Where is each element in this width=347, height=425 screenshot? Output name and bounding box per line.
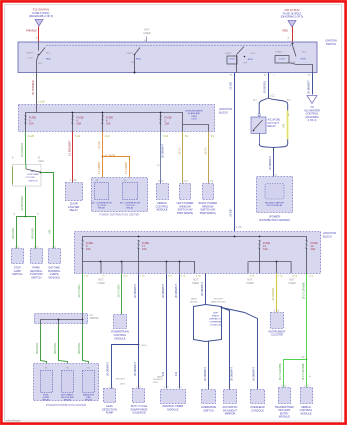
svg-text:A/C COMPRESSOR: A/C COMPRESSOR [91,201,111,204]
switch SW2 [134,48,140,56]
svg-text:20 PNK/BLK: 20 PNK/BLK [31,80,35,95]
wire loop to overdrive switch [208,342,210,390]
svg-text:LKS): LKS) [192,119,197,121]
svg-text:B: B [38,156,40,160]
svg-text:SWITCH: SWITCH [326,42,336,46]
svg-text:20A: 20A [77,121,82,125]
junction block JB1 [19,105,215,132]
svg-text:USED: USED [246,281,253,285]
svg-text:20 DB: 20 DB [229,82,233,89]
svg-text:RADIATOR: RADIATOR [83,393,95,396]
svg-text:20 LT GRN: 20 LT GRN [77,284,81,297]
svg-text:GLASS AND: GLASS AND [188,112,201,115]
svg-text:20 DB/WHT: 20 DB/WHT [203,367,207,381]
svg-text:20 OR/YEL: 20 OR/YEL [271,287,275,301]
PDC starter relay box [257,177,293,213]
svg-text:A/C COMPRESSOR: A/C COMPRESSOR [120,201,140,204]
wire fuse F13 to ignition switch [38,27,40,43]
svg-text:RELAY: RELAY [268,124,277,128]
svg-text:CONSOLE: CONSOLE [251,408,264,412]
svg-text:C110: C110 [38,159,45,163]
PCM relay block box [34,364,99,401]
svg-text:START →: START → [275,50,285,53]
svg-text:7 C6: 7 C6 [278,275,283,277]
svg-text:18 LT GRN/BK: 18 LT GRN/BK [301,363,305,380]
svg-text:CUT OFF: CUT OFF [25,177,35,179]
svg-text:(DIAGRAMS 2 OF 3): (DIAGRAMS 2 OF 3) [29,14,53,18]
wire ignition to JB1 [36,73,38,105]
svg-text:BRN/YEL: BRN/YEL [77,342,81,354]
PDC box (compressor relays) [92,178,148,212]
svg-text:20 DB/WHT: 20 DB/WHT [268,156,272,170]
svg-text:BRN/YEL: BRN/YEL [35,342,39,354]
JB2 fuse FB [138,241,139,249]
svg-text:(W/O): (W/O) [141,345,147,347]
JB2 lower bus left [82,249,84,262]
svg-text:5 C2: 5 C2 [164,387,169,389]
svg-text:8 L: 8 L [185,134,189,138]
svg-text:RELAY: RELAY [43,399,51,402]
svg-text:3 L6: 3 L6 [163,134,169,138]
svg-text:7 C2: 7 C2 [177,387,182,389]
svg-text:MOTOR RELAY: MOTOR RELAY [267,204,283,207]
svg-text:RELAY: RELAY [70,208,79,212]
svg-text:LOCK: LOCK [229,58,235,60]
svg-text:RUN: RUN [136,58,141,60]
wire relay to PDC starter relay [273,148,275,177]
svg-text:SOLENOID: SOLENOID [132,411,146,415]
svg-text:OFF: OFF [243,62,248,64]
svg-text:ACC: ACC [46,52,51,55]
svg-text:9 L: 9 L [211,134,215,138]
svg-text:18 LT GRN/BK: 18 LT GRN/BK [278,363,282,380]
svg-text:(EXCEPT →: (EXCEPT → [116,379,128,381]
svg-text:LOCK: LOCK [27,58,33,60]
svg-text:OVERHEAD: OVERHEAD [209,321,222,324]
JB1 fuse F4 [160,116,161,124]
svg-text:20 DB/WHT: 20 DB/WHT [161,144,165,158]
AC low pressure cutoff switch box [13,164,41,186]
JB2 fuse right drop [306,249,308,274]
svg-text:18 LT GRN/BK: 18 LT GRN/BK [302,282,306,299]
svg-text:4 C6: 4 C6 [181,275,186,277]
svg-text:5 C1: 5 C1 [158,179,164,183]
wire JB2 to keyless entry + overhead (light green) [306,274,308,360]
svg-text:MODULE: MODULE [156,208,167,212]
relay branch pin squares [258,114,260,116]
svg-text:10A: 10A [142,247,147,251]
svg-text:10A: 10A [263,247,268,251]
daytime running lamps module box [49,249,61,264]
wire JB2 overdrive feed (blue) [205,274,207,305]
wire fuse F30 to ignition switch [292,27,294,43]
right power window switch box [203,184,214,200]
svg-text:20 DG/WHT: 20 DG/WHT [20,143,24,158]
svg-text:1 C6: 1 C6 [196,275,201,277]
svg-text:START: START [26,52,34,55]
svg-text:20 DB/WHT: 20 DB/WHT [252,367,256,381]
svg-text:12 RED/WHT: 12 RED/WHT [68,140,72,156]
connector triangle [307,96,317,104]
alternate routing loop [194,305,206,342]
svg-text:20 BRN/YEL: 20 BRN/YEL [20,195,24,210]
A/C PCM cutout relay box [251,117,266,133]
svg-text:(EXCEPT: (EXCEPT [214,299,224,301]
svg-text:LOW PRES: LOW PRES [27,174,39,176]
svg-text:PUMP: PUMP [43,397,50,399]
svg-text:ONLY →: ONLY → [153,382,162,384]
wire ignition to connector triangle [312,73,314,95]
wire low pressure switch right tap [41,173,54,249]
svg-text:PUMP: PUMP [106,411,114,415]
ignition switch box [18,42,317,73]
svg-text:1 C2: 1 C2 [34,246,39,248]
wire low pressure switch down + split [25,187,27,217]
svg-text:14 OR/BK: 14 OR/BK [124,162,128,174]
svg-text:BASE MODEL): BASE MODEL) [211,300,226,303]
svg-text:14 OR/BK: 14 OR/BK [97,162,101,174]
wire branch to day night mirror [222,308,230,390]
switch SW3 [237,47,244,55]
svg-text:RED: RED [283,29,289,33]
JB2 top bus [83,237,307,241]
svg-text:FAN: FAN [86,396,91,399]
svg-text:START: START [126,52,134,55]
svg-text:8 C6: 8 C6 [293,275,298,277]
JB2 fuse FA [82,241,83,249]
svg-text:5 C6: 5 C6 [250,275,255,277]
svg-text:(DIAGRAM 2 OF 3): (DIAGRAM 2 OF 3) [281,15,304,19]
svg-text:10A: 10A [86,247,91,251]
svg-text:1 C2: 1 C2 [269,94,275,98]
fuse symbol F13 [35,20,43,27]
wires JB2 to central timer module (blue) [166,274,168,389]
JB1 bus [26,113,209,132]
wire JB1 to AC low pressure switch (green) [25,132,27,165]
JB2 sub bus right [259,249,261,262]
fusible link yellow [286,111,288,140]
svg-text:RELAY: RELAY [64,399,72,402]
ignition switch internal dashed bus [46,45,292,47]
svg-text:BRN/YEL: BRN/YEL [11,227,15,239]
svg-text:FUEL: FUEL [43,394,49,396]
svg-text:1 C1: 1 C1 [182,179,188,183]
svg-text:LOCK: LOCK [279,58,285,60]
bar internal bus [41,314,83,324]
svg-text:S2: S2 [301,355,305,359]
relay circuit merge [259,134,261,145]
svg-text:ENGINE STARTER: ENGINE STARTER [265,202,284,205]
svg-text:BASE: BASE [157,376,163,379]
svg-text:1 L20: 1 L20 [28,134,35,138]
svg-text:ACC: ACC [302,50,307,53]
wire JB1 to right power window switch (tan) [208,132,210,184]
airbag control module box [157,184,169,200]
svg-text:14 OR: 14 OR [97,141,101,149]
svg-text:BRN/YEL: BRN/YEL [53,342,57,354]
junction block JB2 [75,232,321,274]
svg-text:POWER DISTRIBUTION CENTER: POWER DISTRIBUTION CENTER [99,212,139,216]
svg-text:A/C: A/C [31,170,35,173]
svg-text:MODULE: MODULE [114,336,125,340]
svg-text:MODELS: MODELS [153,379,163,381]
park neutral position switch box [31,249,43,264]
svg-text:20 DB/WHT: 20 DB/WHT [174,284,178,298]
svg-text:20 DB/WHT: 20 DB/WHT [133,284,137,298]
wire JB2 to PCM (green) [121,274,123,315]
svg-text:RELAY: RELAY [126,207,134,210]
svg-text:2 OF 2): 2 OF 2) [308,118,317,122]
svg-text:RELAY: RELAY [85,399,93,402]
svg-text:AUTOMATIC: AUTOMATIC [61,393,74,396]
svg-text:MODULE: MODULE [300,411,311,415]
svg-text:BLOCK: BLOCK [219,110,228,114]
svg-text:1 L2: 1 L2 [105,134,111,138]
svg-text:1 C2: 1 C2 [236,225,242,229]
svg-text:1 C2: 1 C2 [274,308,280,312]
svg-text:CLUTCH: CLUTCH [97,205,106,207]
stop lamp switch box [12,249,24,264]
svg-text:YEL: YEL [282,122,286,127]
svg-text:SWITCH: SWITCH [31,275,41,279]
svg-text:LOCK: LOCK [228,64,234,66]
svg-text:2 C1: 2 C1 [15,246,20,248]
svg-text:MODEL: MODEL [190,301,199,303]
JB1 fuse F3 [102,116,103,124]
svg-text:F11: F11 [174,371,178,376]
svg-text:10A: 10A [106,121,111,125]
fuse symbol F30 [288,21,296,28]
svg-text:1 C6: 1 C6 [140,275,145,277]
svg-text:1 L20: 1 L20 [38,100,45,104]
svg-text:1 L2: 1 L2 [75,134,81,138]
svg-text:SWITCH: SWITCH [12,272,22,276]
svg-text:eAutoRepair: eAutoRepair [6,419,21,423]
wire ignition RUN to JB2 (long dark blue) [234,73,236,232]
svg-text:10A: 10A [29,121,34,125]
svg-text:OFF: OFF [38,63,43,65]
svg-text:2 C6: 2 C6 [309,275,314,277]
svg-text:F10: F10 [161,371,165,376]
svg-text:→ RUN: → RUN [245,59,253,61]
wire JB1 orange to PDC relays [102,132,104,183]
svg-text:PWR WDWS): PWR WDWS) [177,211,193,215]
JB2 fuse FD [306,241,307,249]
svg-text:MODULE: MODULE [49,275,60,279]
cigar lighter box [66,183,83,201]
svg-text:L40: L40 [48,229,52,234]
wire JB2 to instrument cluster (yellow) [276,274,278,313]
switch SW4 [292,43,294,45]
svg-text:MIRROR: MIRROR [225,412,236,416]
wire JB2 to evap purge solenoid (blue) with branch [138,274,140,389]
svg-text:20 TN: 20 TN [178,147,182,154]
svg-text:MODULE: MODULE [167,407,178,411]
svg-text:CONSOLE): CONSOLE) [210,325,222,327]
svg-text:20 TN: 20 TN [203,147,207,154]
svg-text:CLUSTER: CLUSTER [271,333,283,337]
svg-text:RUN: RUN [46,59,51,61]
svg-text:3 C1: 3 C1 [52,246,57,248]
svg-text:1 C10: 1 C10 [70,178,77,182]
wire JB1 to left power window switch (tan) [182,132,184,184]
svg-text:DISTRIBUTION CENTER): DISTRIBUTION CENTER) [259,218,290,222]
svg-text:BRN/YEL: BRN/YEL [30,227,34,239]
svg-text:(W/P: (W/P [213,313,218,315]
svg-text:PWR WDWS): PWR WDWS) [200,211,216,215]
svg-text:DEFEAT) TO: DEFEAT) TO [209,318,222,321]
svg-text:CLUTCH: CLUTCH [126,205,135,207]
svg-text:(W/PW): (W/PW) [90,316,99,320]
svg-text:20 DB/WHT: 20 DB/WHT [200,282,204,296]
svg-text:20 BK/WHT: 20 BK/WHT [307,80,311,94]
svg-text:PNK/BLK: PNK/BLK [26,29,37,33]
svg-text:20 DB/YEL: 20 DB/YEL [263,80,267,93]
svg-text:START: START [225,52,233,55]
svg-text:USED: USED [143,31,150,35]
wire branch to overhead console [222,308,258,390]
svg-text:SWITCH: SWITCH [29,181,38,183]
svg-text:POWER DISTRIBUTION CENTER: POWER DISTRIBUTION CENTER [46,403,86,407]
left power window switch box [180,184,191,200]
svg-text:10A: 10A [165,121,170,125]
JB1 fuse F2 [72,116,73,124]
svg-text:SHUTDOWN: SHUTDOWN [61,397,74,399]
svg-text:BLOCK: BLOCK [323,234,332,238]
svg-text:SWITCH: SWITCH [203,408,213,412]
svg-text:(W/SUNSCREEN: (W/SUNSCREEN [185,111,203,113]
svg-text:20 DB/WHT: 20 DB/WHT [229,367,233,381]
svg-text:WNDW: WNDW [212,316,220,318]
svg-text:20 DB/WHT: 20 DB/WHT [161,284,165,298]
svg-text:A: A [12,156,14,160]
wire JB1 to airbag module (gray blue) [160,132,162,184]
svg-text:(W/O →: (W/O → [120,384,128,386]
svg-text:10A: 10A [311,247,316,251]
wire JB1 to cigar lighter (red) [72,132,74,183]
svg-text:USED: USED [97,281,104,285]
switch SW1 [38,43,40,51]
svg-text:RELAY: RELAY [98,207,106,210]
relay feed split [259,98,268,117]
instrument cluster box [271,313,284,329]
svg-text:20 LT GRN: 20 LT GRN [116,284,120,297]
svg-text:USED: USED [288,281,295,285]
svg-text:20 DB/WHT: 20 DB/WHT [106,362,110,376]
svg-text:BASE: BASE [191,298,197,301]
JB2 fuse FC [259,241,260,249]
svg-text:PWR: PWR [191,116,197,118]
wire ignition to AC cutout relay [268,73,270,99]
svg-text:20 DB: 20 DB [229,209,233,216]
svg-text:MODULE: MODULE [279,415,290,419]
svg-text:1 C1: 1 C1 [208,179,214,183]
bar exit wires (green) to PCM relays [41,324,47,371]
JB1 fuse F1 [25,116,26,124]
svg-text:ACC: ACC [251,52,256,55]
svg-text:→ RUN: → RUN [298,58,306,60]
svg-text:20 DB/WHT: 20 DB/WHT [133,362,137,376]
powertrain control module box [114,315,127,329]
AC-heater control connector bar [35,314,88,324]
svg-text:3 C6: 3 C6 [168,275,173,277]
svg-text:USED: USED [192,281,199,285]
wire JB2 to AC-heater control bar (green) [82,274,84,314]
